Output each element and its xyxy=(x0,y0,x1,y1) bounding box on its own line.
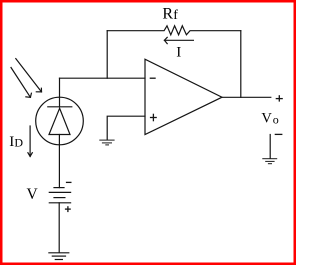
svg-text:V: V xyxy=(27,186,39,203)
svg-text:f: f xyxy=(173,8,178,23)
svg-text:R: R xyxy=(162,6,173,23)
svg-text:D: D xyxy=(14,135,23,149)
svg-text:o: o xyxy=(273,112,279,126)
svg-text:V: V xyxy=(261,110,272,126)
svg-text:I: I xyxy=(176,45,181,61)
